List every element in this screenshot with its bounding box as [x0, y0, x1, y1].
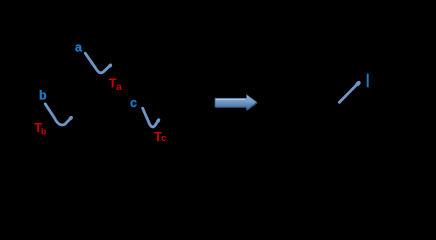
label Ta	[109, 76, 122, 93]
svg-text:Ta: Ta	[109, 76, 122, 93]
label Tb	[34, 120, 47, 137]
svg-text:b: b	[39, 89, 47, 103]
label a	[75, 41, 83, 55]
svg-text:Tc: Tc	[154, 129, 166, 144]
curve c	[143, 108, 159, 127]
label c	[130, 96, 137, 110]
block arrow	[215, 95, 258, 111]
svg-text:Tb: Tb	[34, 120, 47, 137]
svg-text:c: c	[130, 96, 137, 110]
svg-text:a: a	[75, 41, 83, 55]
curve a	[85, 53, 111, 73]
label b	[39, 89, 47, 103]
label l	[367, 74, 369, 88]
diagonal line	[339, 82, 359, 102]
label Tc	[154, 129, 166, 144]
curve b	[45, 104, 71, 125]
